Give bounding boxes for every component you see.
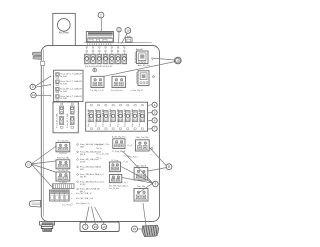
svg-text:M_Fd: M_Fd — [80, 162, 85, 164]
svg-text:Fu_2: Fu_2 — [124, 182, 128, 184]
svg-text:o_Fan_Rly_B: o_Fan_Rly_B — [131, 90, 144, 92]
svg-text:Fse_M_12_20A_Md: Fse_M_12_20A_Md — [138, 109, 141, 126]
svg-text:Fl_Pmp: Fl_Pmp — [111, 160, 119, 162]
svg-text:Trn_Rly_Tr1_B: Trn_Rly_Tr1_B — [90, 90, 104, 92]
svg-text:Fse_M_12_20A_Md: Fse_M_12_20A_Md — [131, 109, 134, 126]
svg-text:Fuse_M_1 20A: Fuse_M_1 20A — [66, 113, 69, 128]
svg-text:Fus_Hold_2: Fus_Hold_2 — [62, 205, 74, 207]
svg-text:10: 10 — [126, 29, 130, 33]
svg-text:Fse_M_12_20A_Md: Fse_M_12_20A_Md — [124, 109, 127, 126]
svg-text:Fse_M_12_20A_Md: Fse_M_12_20A_Md — [87, 109, 90, 126]
svg-text:12: 12 — [32, 93, 36, 97]
svg-text:Fu_B: Fu_B — [128, 145, 133, 147]
svg-text:Fuse_M_1 5A: Fuse_M_1 5A — [97, 143, 110, 146]
svg-text:Md_C: Md_C — [97, 157, 103, 159]
svg-text:M_Fd8: M_Fd8 — [60, 76, 67, 78]
svg-text:Fus_M2_25A_Trl: Fus_M2_25A_Trl — [76, 192, 92, 195]
svg-text:Md_B: Md_B — [97, 148, 103, 150]
svg-text:Md_Fd: Md_Fd — [80, 177, 86, 179]
svg-text:15: 15 — [133, 227, 137, 231]
svg-text:Fse_M_Strt: Fse_M_Strt — [109, 187, 119, 190]
svg-text:Fse_M_12_20A_Md: Fse_M_12_20A_Md — [109, 109, 112, 126]
svg-text:Fse_M9_Start_25A_1: Fse_M9_Start_25A_1 — [109, 184, 128, 187]
svg-text:13: 13 — [94, 225, 98, 229]
svg-text:▸: ▸ — [50, 75, 51, 78]
svg-text:7: 7 — [84, 225, 86, 229]
svg-text:AutoSD: AutoSD — [136, 48, 144, 51]
svg-text:Alt_Feed: Alt_Feed — [59, 32, 70, 35]
svg-text:Fs_B: Fs_B — [124, 161, 129, 163]
svg-text:Fan_Rly_Fld: Fan_Rly_Fld — [111, 90, 122, 92]
svg-text:M_Fd8: M_Fd8 — [60, 83, 67, 85]
svg-text:Auto_SD_Fus: Auto_SD_Fus — [138, 64, 150, 67]
svg-text:Fuse_M_2 0A: Fuse_M_2 0A — [97, 153, 110, 156]
svg-text:8: 8 — [168, 165, 170, 169]
svg-text:Fde_Fan_L: Fde_Fan_L — [129, 157, 139, 159]
svg-text:Trn_Rly_B2: Trn_Rly_B2 — [58, 170, 69, 172]
svg-text:Fse_M_12_20A_Md: Fse_M_12_20A_Md — [102, 109, 105, 126]
svg-text:Fus_Spare_Crt: Fus_Spare_Crt — [76, 202, 90, 205]
svg-text:9: 9 — [155, 182, 157, 186]
svg-text:▸: ▸ — [50, 94, 51, 97]
svg-text:11: 11 — [27, 163, 30, 167]
svg-text:▸: ▸ — [50, 84, 51, 87]
svg-text:Rdtr_Fan_Rly: Rdtr_Fan_Rly — [136, 136, 148, 139]
svg-text:3: 3 — [32, 85, 34, 89]
svg-text:B_SD_Rly_Fan: B_SD_Rly_Fan — [112, 136, 126, 138]
svg-text:TIPM_B7: TIPM_B7 — [59, 153, 67, 155]
svg-text:Md_B: Md_B — [80, 154, 86, 156]
svg-text:Fse_M_12_20A_Md: Fse_M_12_20A_Md — [116, 109, 119, 126]
svg-text:Fuse_M_1 20A: Fuse_M_1 20A — [56, 113, 59, 128]
svg-text:▸: ▸ — [72, 192, 73, 195]
svg-text:14: 14 — [102, 225, 106, 229]
svg-text:1: 1 — [100, 13, 102, 17]
svg-text:▸: ▸ — [72, 197, 73, 200]
svg-text:Trn_Sig_Rly: Trn_Sig_Rly — [58, 140, 69, 142]
svg-text:M_B2: M_B2 — [80, 184, 86, 186]
svg-text:Strtr_Rly: Strtr_Rly — [137, 185, 145, 188]
svg-text:M_Fd8: M_Fd8 — [60, 91, 67, 93]
svg-text:Fse_M_12_20A_Md: Fse_M_12_20A_Md — [94, 109, 97, 126]
svg-text:M_Fd8: M_Fd8 — [60, 98, 67, 100]
svg-text:Fus_M1_20A_Osb: Fus_M1_20A_Osb — [76, 197, 94, 200]
svg-text:Fu1 Fu2 Fu3 Fu4 Fu5 Fu6 F7: Fu1 Fu2 Fu3 Fu4 Fu5 Fu6 F7 — [85, 66, 113, 68]
svg-text:Rad_Fan_Rly: Rad_Fan_Rly — [57, 158, 69, 160]
